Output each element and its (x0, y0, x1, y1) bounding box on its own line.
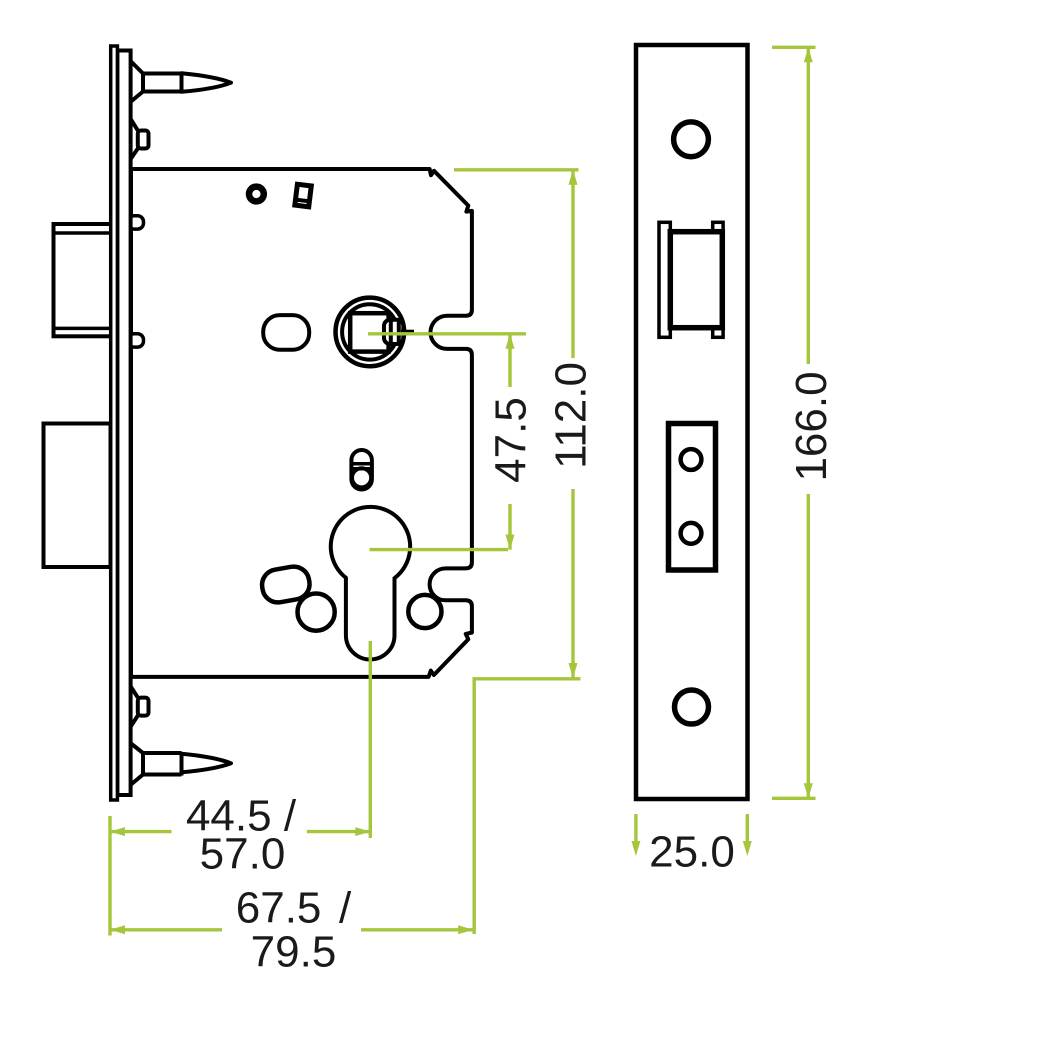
follower square spindle hole (350, 313, 388, 351)
faceplate thin strip (111, 46, 118, 800)
dimension ext bottom 166 (772, 797, 816, 800)
dimension line 44.5/57.0 (110, 830, 370, 833)
stamped tab top (295, 184, 311, 207)
dimension 25.0 right arrow (746, 814, 749, 843)
follower inner circle (342, 304, 397, 359)
svg-text:112.0: 112.0 (547, 362, 596, 469)
latch bolt side view (54, 224, 112, 336)
dimension ext corner bottom 112/67.5 (474, 679, 580, 934)
latch cutout main (670, 232, 722, 328)
circle hole bottom-right (408, 595, 441, 628)
faceplate wide bar (117, 51, 130, 796)
front plate top screw hole (674, 122, 709, 157)
front plate bottom screw hole (675, 690, 709, 724)
euro cylinder hole (331, 507, 410, 660)
dimension ext top 166 (772, 46, 816, 49)
spring tab lower (128, 334, 144, 347)
circle hole bottom-left (298, 594, 335, 631)
latch cutout tab top (713, 222, 723, 231)
bottom fixing pin point (182, 754, 232, 773)
dimension cylinder centerline (370, 548, 509, 551)
svg-text:79.5: 79.5 (251, 928, 337, 977)
svg-text:25.0: 25.0 (649, 828, 735, 877)
svg-text:47.5: 47.5 (487, 397, 536, 483)
follower clip (384, 320, 403, 344)
deadbolt side view (44, 424, 111, 568)
dimension 25.0 left arrow (634, 814, 637, 843)
top stub (138, 131, 149, 149)
oval hole left of follower (263, 315, 309, 350)
latch cutout tab bottom (713, 328, 723, 337)
follower center black tick (401, 330, 414, 334)
deadbolt cutout (669, 424, 716, 571)
deadbolt cutout hole bottom (681, 523, 702, 544)
dimension line 67.5/79.5 (110, 928, 473, 931)
rivet circle top (249, 187, 264, 202)
bottom fixing pin shaft (143, 752, 182, 777)
deadbolt cutout hole top (681, 449, 702, 470)
dimension cylinder vertical line (369, 641, 372, 838)
bottom fixing pin flare (131, 744, 143, 785)
front plate outline (636, 45, 748, 799)
dimension line 47.5 (508, 334, 511, 550)
dimension ext line top 112 (454, 168, 579, 171)
spring tab upper (128, 216, 144, 229)
tilted oval hole bottom-left (260, 564, 312, 605)
dimension line 112.0 (571, 170, 574, 678)
dimension follower centerline (368, 332, 526, 335)
small stud above cylinder (351, 450, 372, 490)
dimension line 166.0 (807, 47, 810, 798)
svg-text:57.0: 57.0 (200, 830, 286, 879)
top fixing pin shaft (143, 72, 182, 93)
follower outer circle (336, 298, 405, 367)
dimension ext line left (108, 816, 111, 936)
svg-text:67.5 /: 67.5 / (236, 884, 352, 933)
bottom stub (138, 698, 149, 716)
bottom stub flare (131, 687, 138, 726)
top fixing pin point (182, 73, 232, 92)
top stub flare (131, 120, 138, 159)
latch cutout strip (659, 222, 670, 337)
svg-text:166.0: 166.0 (787, 371, 836, 481)
lock case outline (131, 169, 472, 677)
top fixing pin flare (131, 62, 143, 102)
